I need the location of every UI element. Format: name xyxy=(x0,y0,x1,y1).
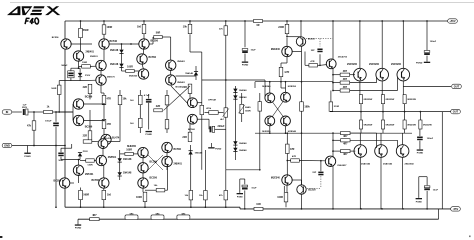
svg-text:PGND: PGND xyxy=(75,228,82,230)
svg-text:47k: 47k xyxy=(27,125,32,128)
svg-text:MJE350: MJE350 xyxy=(288,86,297,88)
svg-text:1k0: 1k0 xyxy=(137,26,142,29)
svg-text:2N5401: 2N5401 xyxy=(86,51,95,54)
svg-text:BC550: BC550 xyxy=(308,39,316,41)
svg-text:10uF: 10uF xyxy=(251,50,257,52)
svg-text:1N4148: 1N4148 xyxy=(110,49,119,52)
svg-text:PGND: PGND xyxy=(237,197,243,199)
svg-text:1N4148: 1N4148 xyxy=(195,152,203,155)
svg-text:BC556: BC556 xyxy=(85,126,93,129)
svg-text:2SA1837: 2SA1837 xyxy=(337,164,347,167)
svg-text:PGND: PGND xyxy=(242,65,249,67)
svg-text:47R: 47R xyxy=(292,155,296,158)
svg-text:MJE340: MJE340 xyxy=(288,130,297,133)
svg-text:Z10V: Z10V xyxy=(83,151,89,153)
svg-text:470k: 470k xyxy=(206,107,212,110)
svg-text:GND: GND xyxy=(4,144,10,148)
svg-text:4R7: 4R7 xyxy=(343,153,348,156)
svg-text:560uF: 560uF xyxy=(61,65,68,67)
svg-text:BC556: BC556 xyxy=(52,37,60,39)
svg-text:2SA1943: 2SA1943 xyxy=(383,163,393,166)
svg-text:47R: 47R xyxy=(290,148,295,151)
svg-text:510R: 510R xyxy=(334,106,340,108)
svg-text:10uF: 10uF xyxy=(433,189,439,191)
svg-text:1N4148: 1N4148 xyxy=(239,142,247,145)
svg-text:PGND: PGND xyxy=(146,134,153,136)
svg-text:22R: 22R xyxy=(182,136,187,139)
svg-text:2SC5200: 2SC5200 xyxy=(391,63,402,66)
svg-text:56uF: 56uF xyxy=(58,160,64,162)
svg-text:0R22/5W: 0R22/5W xyxy=(407,99,416,101)
svg-text:2SC4793: 2SC4793 xyxy=(338,56,348,59)
svg-text:BC556: BC556 xyxy=(149,56,157,59)
svg-text:2SK170: 2SK170 xyxy=(107,76,116,78)
svg-text:PGND: PGND xyxy=(24,156,31,158)
svg-text:OPT547: OPT547 xyxy=(208,99,217,102)
svg-text:BC556: BC556 xyxy=(54,179,62,182)
svg-text:0R22/5W: 0R22/5W xyxy=(364,125,373,127)
svg-text:0R22/5W: 0R22/5W xyxy=(386,99,395,101)
svg-text:10k: 10k xyxy=(123,98,128,101)
svg-text:BC560: BC560 xyxy=(176,87,184,89)
svg-text:56R: 56R xyxy=(156,32,161,35)
svg-text:500R: 500R xyxy=(245,110,251,112)
svg-text:100R: 100R xyxy=(127,66,133,69)
svg-text:PGND: PGND xyxy=(416,202,423,204)
svg-text:2SC5200: 2SC5200 xyxy=(347,63,358,66)
svg-text:130R: 130R xyxy=(87,164,93,166)
svg-text:47R: 47R xyxy=(107,123,112,126)
svg-text:2SA1943: 2SA1943 xyxy=(405,163,415,166)
svg-text:220R: 220R xyxy=(278,26,284,29)
svg-text:0R22/5W: 0R22/5W xyxy=(386,125,395,127)
svg-text:PGND: PGND xyxy=(215,148,222,150)
svg-text:22R: 22R xyxy=(83,86,88,89)
svg-text:OUT: OUT xyxy=(454,84,460,88)
svg-text:MJE340: MJE340 xyxy=(271,177,281,180)
svg-text:2N5501: 2N5501 xyxy=(108,156,117,159)
svg-text:22R: 22R xyxy=(182,86,187,89)
svg-text:+55V: +55V xyxy=(449,19,455,23)
svg-text:4R7: 4R7 xyxy=(343,70,348,73)
svg-text:1N4148: 1N4148 xyxy=(239,149,247,152)
svg-text:BL474: BL474 xyxy=(105,137,112,140)
svg-text:2N5401: 2N5401 xyxy=(177,60,185,63)
svg-text:4R7: 4R7 xyxy=(343,86,348,89)
svg-text:PGND: PGND xyxy=(417,153,424,155)
svg-text:BC556: BC556 xyxy=(151,40,159,43)
svg-text:1N4148: 1N4148 xyxy=(123,158,132,161)
svg-text:2SA1943: 2SA1943 xyxy=(361,163,371,166)
svg-text:PGND: PGND xyxy=(416,62,423,64)
svg-text:BL474: BL474 xyxy=(112,137,120,140)
svg-text:33P: 33P xyxy=(311,50,315,52)
svg-text:BC556: BC556 xyxy=(150,177,158,180)
svg-text:0R22/2W: 0R22/2W xyxy=(423,125,432,127)
svg-text:10k: 10k xyxy=(183,26,188,29)
svg-text:22R: 22R xyxy=(83,135,88,138)
svg-text:100uF: 100uF xyxy=(430,41,437,43)
svg-text:4.7R: 4.7R xyxy=(284,71,289,74)
svg-text:1N4148: 1N4148 xyxy=(239,89,247,92)
svg-text:OUT: OUT xyxy=(453,110,459,114)
svg-text:MJE350: MJE350 xyxy=(129,75,138,77)
svg-text:100R: 100R xyxy=(126,149,132,152)
svg-text:33P: 33P xyxy=(312,172,316,174)
svg-text:100R: 100R xyxy=(136,196,142,199)
svg-text:1N4148: 1N4148 xyxy=(110,63,119,66)
svg-text:220uF: 220uF xyxy=(218,125,225,128)
svg-text:0R: 0R xyxy=(256,24,259,27)
svg-text:1uF: 1uF xyxy=(23,104,28,106)
svg-text:180k: 180k xyxy=(304,106,310,109)
svg-text:BIAS: BIAS xyxy=(245,106,251,109)
svg-text:BC546: BC546 xyxy=(110,40,118,43)
svg-text:100R: 100R xyxy=(107,26,113,29)
svg-text:100R: 100R xyxy=(277,196,283,199)
svg-text:MJE340: MJE340 xyxy=(271,48,281,51)
svg-text:BC560: BC560 xyxy=(174,148,182,151)
svg-text:MJE350: MJE350 xyxy=(127,145,137,148)
svg-text:2SC5200: 2SC5200 xyxy=(369,63,380,66)
svg-text:560R: 560R xyxy=(83,29,89,32)
svg-text:4R7: 4R7 xyxy=(92,214,97,217)
svg-text:47R: 47R xyxy=(310,60,314,63)
svg-text:10R: 10R xyxy=(256,203,261,206)
svg-text:22R: 22R xyxy=(156,105,161,108)
svg-text:4R7: 4R7 xyxy=(343,135,348,138)
svg-text:4R7: 4R7 xyxy=(343,142,348,145)
svg-text:BC556: BC556 xyxy=(85,95,93,98)
svg-text:Z10V: Z10V xyxy=(85,75,91,77)
svg-text:560R: 560R xyxy=(83,194,89,197)
svg-text:1N4148: 1N4148 xyxy=(123,172,132,175)
svg-text:0R22/5W: 0R22/5W xyxy=(407,125,416,127)
svg-text:2N5401: 2N5401 xyxy=(174,162,183,165)
svg-text:0R22/5W: 0R22/5W xyxy=(364,99,373,101)
svg-text:2N5401: 2N5401 xyxy=(177,81,185,84)
svg-text:136R: 136R xyxy=(82,62,88,64)
svg-text:100uF: 100uF xyxy=(45,121,52,123)
svg-text:47R: 47R xyxy=(107,98,112,101)
svg-text:BC556: BC556 xyxy=(92,179,100,182)
svg-text:100nF: 100nF xyxy=(427,138,434,140)
svg-text:BC560: BC560 xyxy=(188,129,196,131)
svg-text:-55V: -55V xyxy=(453,207,459,211)
svg-text:BC550: BC550 xyxy=(308,189,316,192)
svg-text:1N4148: 1N4148 xyxy=(239,96,247,99)
svg-text:2N5501: 2N5501 xyxy=(90,56,98,58)
svg-text:2N5401: 2N5401 xyxy=(85,173,94,176)
svg-text:560R: 560R xyxy=(51,88,56,90)
svg-text:1N4148: 1N4148 xyxy=(185,72,193,75)
svg-text:250V: 250V xyxy=(22,107,28,109)
svg-text:10uF: 10uF xyxy=(251,187,257,189)
svg-text:4.7uF: 4.7uF xyxy=(144,94,150,97)
svg-text:IN: IN xyxy=(6,110,9,114)
svg-text:4R7: 4R7 xyxy=(343,78,348,81)
svg-text:1k0: 1k0 xyxy=(107,194,112,197)
